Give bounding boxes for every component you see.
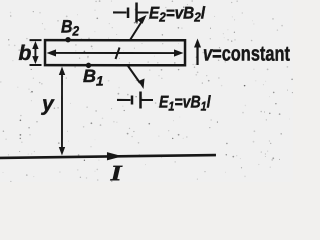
arrowhead b up — [32, 41, 38, 49]
svg-text:I: I — [109, 160, 122, 182]
arrowhead b down — [32, 56, 38, 64]
arrowhead length right — [174, 49, 184, 56]
label l tick on length arrow — [116, 47, 120, 59]
label E2 equation — [149, 4, 205, 25]
label v=constant — [203, 42, 291, 65]
battery E2 short plate — [127, 7, 130, 17]
battery E1 right lead — [141, 99, 153, 101]
battery E2 long plate — [135, 2, 138, 22]
arrowhead y down — [59, 147, 65, 156]
battery E1 left lead — [117, 99, 130, 101]
dimension y line — [61, 70, 63, 152]
svg-text:v=constant: v=constant — [203, 42, 291, 65]
length arrow l inside bar — [51, 52, 179, 54]
label I current — [109, 160, 122, 185]
svg-text:y: y — [41, 92, 55, 115]
dimension b extension line bottom — [30, 64, 42, 66]
dimension b extension line top — [30, 39, 42, 41]
svg-text:b: b — [19, 42, 32, 65]
arrowhead leader E1 — [138, 78, 144, 89]
battery E1 short plate — [131, 95, 134, 104]
conducting bar (rectangle) — [45, 40, 185, 65]
battery E2 right lead — [138, 11, 149, 13]
label B2 — [61, 17, 79, 39]
leader line to E2 — [130, 21, 142, 40]
dimension b line — [34, 44, 36, 61]
battery E2 left lead — [113, 11, 127, 13]
arrowhead length left — [47, 49, 57, 56]
arrowhead velocity v — [194, 39, 201, 48]
paper background — [0, 0, 293, 182]
arrowhead leader E2 — [137, 15, 147, 24]
label B1 — [83, 66, 104, 89]
label E1 equation — [159, 93, 211, 113]
leader line to E1 — [128, 66, 140, 83]
velocity arrow line — [196, 43, 198, 65]
arrowhead y up — [59, 66, 65, 75]
battery E1 long plate — [139, 91, 142, 108]
arrowhead current I on wire — [107, 152, 123, 160]
node B2 dot on top surface — [65, 37, 70, 42]
wire (long straight conductor carrying current I) — [0, 155, 216, 158]
node B1 dot on bottom surface — [86, 63, 91, 68]
